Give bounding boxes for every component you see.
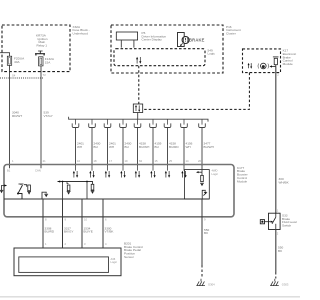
svg-text:BU/WH: BU/WH (204, 145, 214, 149)
wire module pin 20 branch (196, 165, 202, 175)
svg-text:14: 14 (186, 159, 189, 163)
svg-text:40A: 40A (14, 60, 20, 64)
label circuit 539 (44, 111, 53, 118)
svg-text:WH/BK: WH/BK (279, 180, 290, 184)
fuse block X32A dashed enclosure (2, 25, 90, 72)
svg-text:BRAKE: BRAKE (189, 38, 205, 43)
connector terminal and wire 9 (199, 120, 214, 166)
svg-text:RD/WT: RD/WT (12, 114, 22, 118)
serial data wire K17 to gateway (dashed) (143, 73, 250, 110)
wire module to B201 pin 3 (82, 199, 93, 248)
fuse F2DUA 40A (7, 56, 25, 65)
connector terminal and wire 4 (120, 120, 132, 166)
serial data arrows module pins (76, 165, 185, 171)
driver information center display P6 (116, 31, 166, 47)
wire fuse F2DUA to module pin 1 (10, 65, 16, 165)
svg-text:20: 20 (198, 159, 201, 163)
svg-text:25: 25 (169, 159, 172, 163)
svg-text:S4: S4 (12, 74, 16, 78)
serial data sub-box in cluster (114, 48, 215, 65)
svg-text:10: 10 (77, 159, 80, 163)
connector terminal and wire 6 (150, 120, 162, 166)
svg-text:VT/BK: VT/BK (105, 230, 115, 234)
svg-text:Underhood: Underhood (73, 32, 89, 36)
pedal position logic sub-box (185, 169, 219, 199)
connector terminal and wire 3 (104, 120, 116, 166)
wire fuse F132A to module pin 21 (41, 66, 46, 165)
indicator BRAKE (178, 33, 205, 47)
svg-text:15A: 15A (45, 61, 51, 65)
pedal switch in sub-box (202, 190, 207, 198)
svg-text:Logic: Logic (212, 172, 219, 176)
connector terminal and wire 1 (72, 120, 84, 166)
svg-text:Relay 1: Relay 1 (37, 44, 48, 48)
ground G303 (270, 279, 289, 287)
fuse F132A 15A (39, 57, 55, 66)
connector terminal and wire 5 (134, 120, 149, 166)
ground tap at pin 21 (41, 165, 48, 199)
svg-text:BU/WH: BU/WH (139, 145, 149, 149)
pump motor M (258, 63, 269, 69)
svg-text:G303: G303 (282, 283, 289, 287)
instrument cluster P16 dashed enclosure (111, 25, 241, 73)
svg-text:BU/RD: BU/RD (169, 145, 179, 149)
svg-text:BU: BU (125, 145, 129, 149)
module internal labels (7, 169, 41, 173)
svg-text:G304: G304 (208, 283, 215, 287)
connector terminal and wire 7 (164, 120, 179, 166)
serial data arrows in K17 (248, 63, 253, 69)
svg-text:T2: T2 (43, 73, 47, 77)
connector terminal and wire 2 (89, 120, 101, 166)
harness connector bracket (69, 117, 208, 122)
sensor return line with pull-down resistors (58, 180, 95, 199)
svg-text:Module: Module (283, 62, 293, 66)
resistor in sub-box (200, 175, 204, 186)
svg-text:WH: WH (186, 145, 191, 149)
serial data arrows in cluster (136, 57, 141, 64)
svg-text:10: 10 (84, 217, 87, 221)
svg-text:VT/GY: VT/GY (44, 114, 53, 118)
module pin numbers (12, 159, 201, 163)
svg-text:WH: WH (77, 145, 82, 149)
svg-text:B1: B1 (7, 169, 11, 173)
label circuit 3300 (279, 177, 290, 184)
brake pedal position sensor B201 (14, 241, 143, 275)
wire module to B201 pin 4 (103, 199, 114, 248)
svg-text:Module: Module (237, 179, 247, 183)
wire module to ground G304 (202, 199, 209, 279)
brake pedal switch inside module (10, 165, 32, 199)
svg-text:BU: BU (94, 145, 98, 149)
dotted harness edge (0, 77, 44, 79)
svg-text:Cluster: Cluster (226, 32, 236, 36)
brake solenoid in K17 (269, 57, 278, 68)
svg-text:18: 18 (94, 159, 97, 163)
label circuit 4040 (12, 111, 22, 118)
svg-text:15: 15 (155, 159, 158, 163)
module internal bus line (4, 198, 209, 200)
brake booster control module K177 enclosure (4, 165, 248, 217)
svg-text:21: 21 (43, 159, 46, 163)
svg-text:17: 17 (109, 159, 112, 163)
wire S33 to ground G303 (276, 230, 284, 279)
svg-text:BU/RD: BU/RD (45, 230, 55, 234)
svg-text:Center Display: Center Display (142, 38, 163, 42)
wire module to B201 pin 2 (63, 199, 74, 248)
svg-text:BU: BU (155, 145, 159, 149)
ground G304 (196, 279, 215, 287)
wire module to B201 pin 1 (43, 199, 55, 248)
left edge arrow and ground (0, 184, 7, 193)
svg-text:Logic: Logic (111, 260, 118, 264)
svg-text:BU/YE: BU/YE (84, 230, 93, 234)
svg-text:Logic: Logic (208, 52, 216, 56)
svg-text:WH: WH (109, 145, 114, 149)
svg-text:19: 19 (125, 159, 128, 163)
connector terminal and wire 8 (181, 120, 193, 166)
svg-text:Switch: Switch (282, 224, 291, 228)
EBCM K17 dashed enclosure (243, 49, 297, 73)
relay KR73A contact (35, 33, 48, 55)
svg-text:84: 84 (139, 159, 142, 163)
wire K17 to brake fluid level switch (276, 67, 280, 214)
serial data wire cluster to gateway (dashed) (138, 66, 140, 104)
svg-text:CAN: CAN (35, 169, 41, 173)
brake fluid level switch S33 (260, 209, 297, 236)
svg-text:Sensor: Sensor (124, 255, 134, 259)
serial data gateway connector on harness (133, 104, 142, 119)
svg-text:BK/GY: BK/GY (64, 230, 73, 234)
wire battery feed into fuse F2DUA (0, 53, 10, 57)
